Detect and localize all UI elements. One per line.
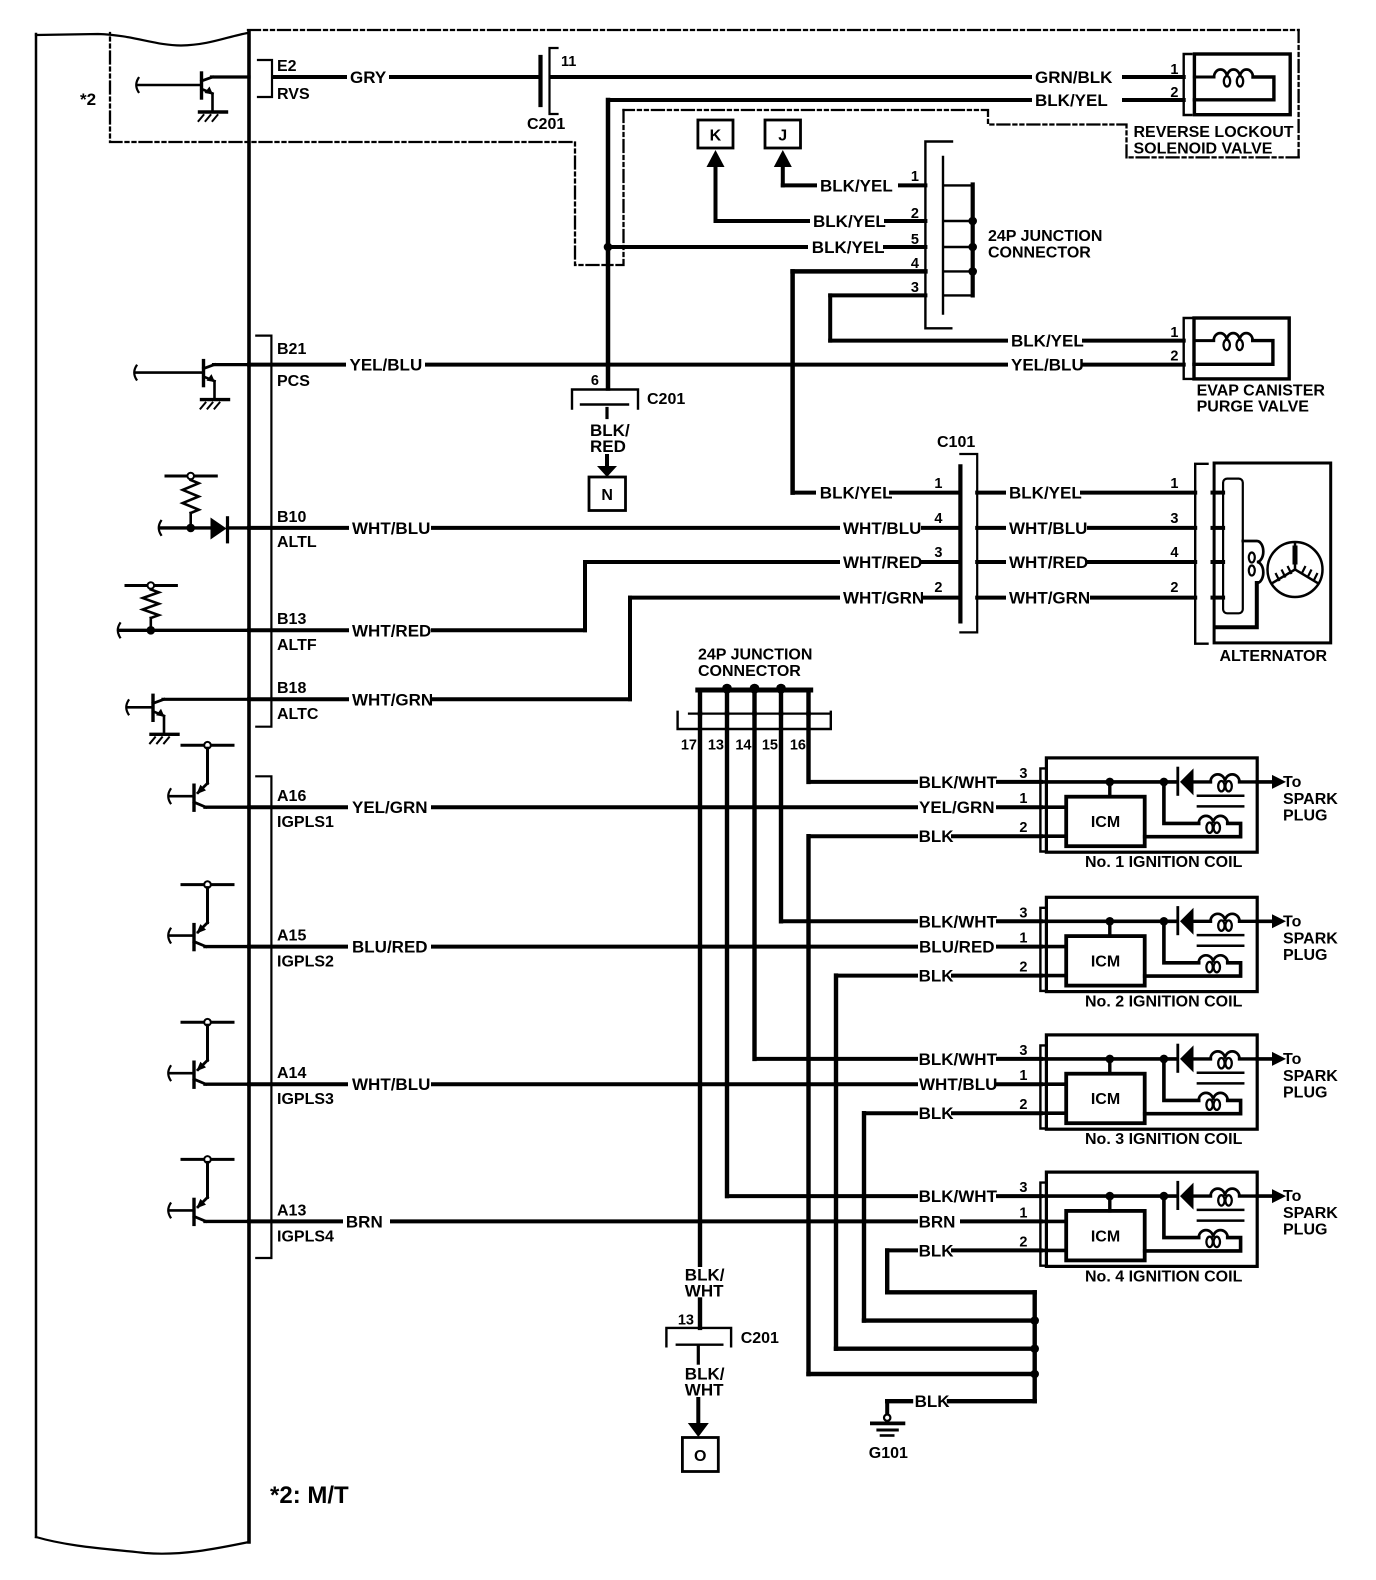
svg-text:3: 3 — [911, 280, 919, 296]
svg-text:N: N — [601, 487, 613, 504]
svg-text:RVS: RVS — [277, 86, 310, 103]
No. 4 ignition coil box — [1046, 1172, 1257, 1266]
coil 1 output arrow to spark plug — [1257, 780, 1272, 784]
svg-text:1: 1 — [1019, 1205, 1027, 1221]
24P junction connector (bottom) top bar — [698, 688, 811, 693]
M/T dash-dot boundary solenoid label box left — [624, 110, 1127, 157]
svg-text:4: 4 — [911, 256, 919, 272]
svg-text:3: 3 — [934, 545, 942, 561]
coil 4 primary winding — [1194, 1194, 1211, 1197]
wire BLK/WHT junction 17 down to C201 pin 13 — [698, 714, 702, 1265]
svg-text:ALTC: ALTC — [277, 706, 319, 723]
resistor R1 (ALTL pull-up) — [183, 480, 199, 513]
coil 1 pin 1 internal wire — [1041, 805, 1066, 809]
M/T dash-dot boundary right side — [1297, 30, 1299, 157]
arrow into node J — [774, 150, 792, 167]
coil 2 transformer core — [1198, 934, 1243, 937]
svg-text:4: 4 — [934, 511, 942, 527]
svg-text:YEL/BLU: YEL/BLU — [1011, 356, 1084, 375]
svg-text:BLK/WHT: BLK/WHT — [919, 773, 998, 792]
svg-text:GRN/BLK: GRN/BLK — [1035, 68, 1113, 87]
svg-text:A13: A13 — [277, 1202, 306, 1219]
svg-text:To: To — [1283, 774, 1302, 791]
svg-text:BLK: BLK — [919, 827, 955, 846]
svg-text:3: 3 — [1170, 511, 1178, 527]
connector C101 right bracket — [960, 454, 977, 632]
coil 4 pin 2 internal wire — [1041, 1249, 1066, 1253]
connector C201 pin 13 symbol — [666, 1328, 731, 1346]
svg-text:PCS: PCS — [277, 373, 310, 390]
svg-text:BRN: BRN — [919, 1212, 956, 1231]
svg-text:ALTL: ALTL — [277, 534, 317, 551]
svg-text:BLK: BLK — [919, 1241, 955, 1260]
svg-text:16: 16 — [790, 738, 806, 754]
page connector node N box — [589, 477, 626, 511]
svg-text:WHT/GRN: WHT/GRN — [843, 589, 924, 608]
alternator pin bracket — [1195, 464, 1207, 644]
svg-text:2: 2 — [911, 206, 919, 222]
svg-text:BLK/YEL: BLK/YEL — [820, 176, 893, 195]
wire WHT/BLU A14 to No.3 ignition coil — [249, 1082, 346, 1086]
ground bus vertical — [1032, 1292, 1036, 1401]
svg-text:No. 2 IGNITION COIL: No. 2 IGNITION COIL — [1085, 994, 1243, 1011]
page connector node K box — [698, 120, 733, 148]
arrow to page node O — [696, 1399, 700, 1424]
wire BLK/WHT junction 15 to coil 2 pin 3 — [779, 714, 783, 922]
svg-text:SPARK: SPARK — [1283, 791, 1338, 808]
svg-text:5: 5 — [911, 232, 919, 248]
svg-text:WHT/GRN: WHT/GRN — [352, 690, 433, 709]
svg-text:24P JUNCTION: 24P JUNCTION — [698, 647, 812, 664]
coil 3 junction node to secondary — [1160, 1055, 1169, 1064]
wire GRN/BLK cont. — [1124, 75, 1184, 79]
svg-text:C201: C201 — [741, 1330, 779, 1347]
coil 1 secondary winding — [1164, 782, 1199, 824]
svg-text:J: J — [778, 128, 787, 145]
svg-text:*2: M/T: *2: M/T — [270, 1482, 349, 1509]
24P junction connector (bottom) cell dividers — [698, 690, 702, 714]
EVAP canister purge valve box — [1194, 318, 1289, 379]
M/T conditional dash-dot boundary top — [248, 29, 1299, 31]
svg-text:3: 3 — [1019, 905, 1027, 921]
svg-text:WHT/RED: WHT/RED — [1009, 553, 1088, 572]
coil 3 pin 3 internal wire — [1041, 1057, 1177, 1061]
24P junction connector (top) bracket — [925, 142, 952, 329]
wire BLK coil 1 pin 2 return — [809, 834, 917, 838]
coil 3 transformer core — [1198, 1071, 1243, 1074]
svg-text:ICM: ICM — [1091, 954, 1120, 971]
coil 4 junction node to secondary — [1160, 1192, 1169, 1201]
ECM/PCM body bottom torn edge — [36, 1537, 249, 1554]
svg-text:B21: B21 — [277, 341, 306, 358]
svg-text:RED: RED — [590, 437, 626, 456]
ECM A-pin bracket — [256, 776, 271, 1258]
transistor Q4 (IGPLS1 driver) — [182, 744, 233, 747]
svg-text:SPARK: SPARK — [1283, 1068, 1338, 1085]
svg-text:WHT/BLU: WHT/BLU — [352, 519, 430, 538]
wire BLK coil 3 pin 2 return — [864, 1111, 916, 1115]
svg-text:1: 1 — [1019, 1068, 1027, 1084]
EVAP canister purge valve pin bracket — [1184, 318, 1192, 379]
No. 2 ignition coil pin bracket — [1040, 908, 1046, 991]
wire BLK to ground G101 — [949, 1399, 1035, 1403]
svg-text:K: K — [710, 128, 722, 145]
pin E2 bracket — [258, 60, 272, 97]
svg-text:ALTERNATOR: ALTERNATOR — [1220, 648, 1328, 665]
svg-text:3: 3 — [1019, 1043, 1027, 1059]
svg-text:1: 1 — [911, 169, 919, 185]
diode D2 — [1176, 908, 1179, 934]
svg-text:B13: B13 — [277, 611, 306, 628]
wire BLK coil 2 pin 2 return — [836, 974, 916, 978]
svg-text:IGPLS2: IGPLS2 — [277, 954, 334, 971]
coil 2 pin 3 internal wire — [1041, 919, 1177, 923]
pull-up bar for ALTL — [166, 475, 216, 478]
coil 3 primary winding — [1194, 1057, 1211, 1060]
svg-text:SPARK: SPARK — [1283, 930, 1338, 947]
svg-text:SPARK: SPARK — [1283, 1205, 1338, 1222]
ICM U3 box — [1066, 1074, 1145, 1124]
wire BLK/YEL main vertical — [606, 100, 611, 389]
transistor Q3 (ALTC driver) — [126, 700, 128, 714]
wire BLK/WHT junction 13 to coil 4 pin 3 — [725, 714, 729, 1197]
svg-text:WHT/RED: WHT/RED — [843, 553, 922, 572]
svg-text:4: 4 — [1170, 545, 1178, 561]
connector C201 pin 6 symbol — [572, 390, 638, 409]
No. 1 ignition coil box — [1046, 758, 1257, 852]
reverse lockout solenoid valve box — [1194, 54, 1290, 115]
wire BLK/WHT junction 14 to coil 3 pin 3 — [752, 714, 756, 1059]
svg-text:2: 2 — [1019, 1234, 1027, 1250]
coil 3 pin 2 internal wire — [1041, 1111, 1066, 1115]
svg-text:C201: C201 — [647, 391, 685, 408]
wire BLK/YEL C101 to alternator pin 1 — [977, 491, 1004, 495]
svg-text:13: 13 — [678, 1313, 694, 1329]
junction node ALTF — [147, 626, 156, 635]
svg-text:WHT/BLU: WHT/BLU — [352, 1075, 430, 1094]
wire BLK/YEL junction pin 2 to K — [716, 219, 809, 223]
svg-text:*2: *2 — [80, 90, 96, 109]
coil 3 output arrow to spark plug — [1257, 1057, 1272, 1061]
svg-text:YEL/GRN: YEL/GRN — [352, 798, 428, 817]
alternator connector bar — [1223, 479, 1243, 614]
svg-text:BLU/RED: BLU/RED — [352, 938, 428, 957]
coil 2 primary winding — [1194, 920, 1211, 923]
svg-text:2: 2 — [1019, 960, 1027, 976]
ICM U2 box — [1066, 936, 1145, 986]
svg-text:WHT: WHT — [685, 1381, 724, 1400]
svg-text:PLUG: PLUG — [1283, 807, 1327, 824]
coil 1 primary winding — [1194, 780, 1211, 783]
M/T dash-dot boundary inner left leg — [110, 33, 624, 265]
page connector node J box — [765, 120, 801, 148]
svg-text:No. 4 IGNITION COIL: No. 4 IGNITION COIL — [1085, 1268, 1243, 1285]
coil 4 pin 3 internal wire — [1041, 1194, 1177, 1198]
svg-text:BLK/WHT: BLK/WHT — [919, 1050, 998, 1069]
wire GRY E2 to C201-11 — [273, 75, 345, 79]
coil 4 secondary winding — [1164, 1196, 1199, 1238]
coil 4 transformer core — [1198, 1209, 1243, 1212]
svg-text:EVAP CANISTER: EVAP CANISTER — [1197, 383, 1326, 400]
transistor Q2 (PCS driver) — [134, 366, 136, 380]
svg-text:WHT/RED: WHT/RED — [352, 621, 431, 640]
svg-text:6: 6 — [591, 373, 599, 389]
coil 3 pin 1 internal wire — [1041, 1082, 1066, 1086]
svg-text:1: 1 — [1019, 931, 1027, 947]
junction dots on ladder — [968, 217, 977, 226]
transistor Q6 (IGPLS3 driver) — [182, 1021, 233, 1024]
reverse lockout solenoid valve pin bracket — [1184, 54, 1192, 115]
junction dots (bottom connector) — [722, 684, 732, 694]
svg-text:1: 1 — [934, 476, 942, 492]
alternator box — [1214, 463, 1331, 643]
svg-text:PLUG: PLUG — [1283, 947, 1327, 964]
svg-text:2: 2 — [1170, 85, 1178, 101]
svg-text:BLU/RED: BLU/RED — [919, 938, 995, 957]
M/T dash-dot boundary solenoid label box bottom — [1127, 156, 1299, 158]
alternator stator symbol — [1268, 542, 1323, 597]
wire GRY cont. — [391, 75, 540, 79]
coil 1 pin 2 internal wire — [1041, 834, 1066, 838]
transistor Q1 (RVS driver) — [136, 78, 138, 92]
svg-text:BLK/YEL: BLK/YEL — [820, 484, 893, 503]
ECM/PCM body left edge — [35, 34, 38, 1537]
junction node BLK/YEL branch — [604, 243, 613, 252]
24P junction connector (top) cell ladder — [971, 185, 975, 296]
svg-text:E2: E2 — [277, 58, 297, 75]
coil 1 junction node to secondary — [1160, 778, 1169, 787]
wire WHT/GRN C101 to alternator pin 2 — [977, 596, 1004, 600]
svg-text:B10: B10 — [277, 509, 306, 526]
coil 2 junction node to secondary — [1160, 917, 1169, 926]
wire WHT/BLU B10 — [249, 526, 347, 530]
svg-text:2: 2 — [1019, 820, 1027, 836]
wire YEL/BLU B21 — [249, 363, 344, 367]
svg-text:BRN: BRN — [346, 1212, 383, 1231]
wire BLU/RED A15 to No.2 ignition coil — [249, 945, 346, 949]
svg-text:BLK/YEL: BLK/YEL — [1035, 91, 1108, 110]
junction dots on ground bus — [1030, 1316, 1039, 1325]
svg-text:To: To — [1283, 1188, 1302, 1205]
wire BLK/YEL junction pin 1 to J — [783, 183, 815, 187]
No. 3 ignition coil pin bracket — [1040, 1045, 1046, 1128]
coil 1 pin 3 internal wire — [1041, 780, 1177, 784]
wire BLK/YEL junction pin 4 to C101 — [793, 269, 926, 274]
wire BLK/YEL junction pin 5 — [608, 245, 806, 249]
No. 4 ignition coil pin bracket — [1040, 1183, 1046, 1266]
svg-text:1: 1 — [1170, 62, 1178, 78]
coil 4 output arrow to spark plug — [1257, 1194, 1272, 1198]
svg-text:13: 13 — [708, 738, 724, 754]
svg-text:BLK/YEL: BLK/YEL — [1009, 484, 1082, 503]
ground G101 symbol — [884, 1415, 890, 1421]
svg-text:2: 2 — [934, 580, 942, 596]
svg-text:To: To — [1283, 1051, 1302, 1068]
coil 1 junction node to ICM — [1106, 778, 1115, 787]
EVAP valve coil winding — [1194, 339, 1214, 342]
wire ALTL row internal — [159, 521, 161, 535]
wire WHT/RED C101 to alternator pin 4 — [977, 560, 1004, 564]
svg-text:BLK/WHT: BLK/WHT — [919, 912, 998, 931]
coil 2 pin 1 internal wire — [1041, 945, 1066, 949]
wire BLK/YEL into C101 pin 1 — [793, 491, 814, 495]
wire WHT/GRN riser — [628, 598, 632, 700]
svg-text:ICM: ICM — [1091, 814, 1120, 831]
svg-text:2: 2 — [1170, 580, 1178, 596]
svg-text:GRY: GRY — [350, 68, 387, 87]
wire ALTF row internal — [118, 623, 120, 637]
connector C101 left bar — [958, 466, 962, 621]
svg-text:BLK: BLK — [919, 967, 955, 986]
svg-text:WHT/BLU: WHT/BLU — [1009, 519, 1087, 538]
svg-text:G101: G101 — [869, 1445, 908, 1462]
svg-text:ICM: ICM — [1091, 1228, 1120, 1245]
svg-text:WHT: WHT — [685, 1282, 724, 1301]
svg-text:WHT/GRN: WHT/GRN — [1009, 589, 1090, 608]
svg-text:1: 1 — [1019, 791, 1027, 807]
wire BLK/WHT junction 16 to coil 1 pin 3 — [806, 714, 810, 782]
svg-text:ICM: ICM — [1091, 1091, 1120, 1108]
svg-text:BLK/YEL: BLK/YEL — [812, 238, 885, 257]
svg-text:No. 1 IGNITION COIL: No. 1 IGNITION COIL — [1085, 854, 1243, 871]
svg-text:O: O — [694, 1448, 706, 1465]
wire WHT/RED riser — [583, 562, 587, 630]
wire BLK coil 4 pin 2 return — [887, 1248, 916, 1252]
24P junction connector (bottom) base line — [689, 712, 829, 714]
svg-text:24P JUNCTION: 24P JUNCTION — [988, 228, 1102, 245]
svg-text:A16: A16 — [277, 788, 306, 805]
svg-text:No. 3 IGNITION COIL: No. 3 IGNITION COIL — [1085, 1131, 1243, 1148]
ECM/PCM body top torn edge — [36, 33, 248, 46]
svg-text:PLUG: PLUG — [1283, 1084, 1327, 1101]
transistor Q5 (IGPLS2 driver) — [182, 883, 233, 886]
coil 3 secondary winding — [1164, 1059, 1199, 1101]
resistor R2 (ALTF pull-up) — [143, 590, 159, 619]
arrow to page node N — [605, 456, 609, 467]
svg-text:ALTF: ALTF — [277, 637, 317, 654]
svg-text:IGPLS3: IGPLS3 — [277, 1091, 334, 1108]
coil 2 secondary winding — [1164, 921, 1199, 963]
ICM U1 box — [1066, 797, 1145, 847]
24P junction connector (bottom) housing bracket — [678, 712, 831, 729]
No. 1 ignition coil pin bracket — [1040, 768, 1046, 851]
svg-text:1: 1 — [1170, 325, 1178, 341]
svg-text:IGPLS1: IGPLS1 — [277, 814, 334, 831]
diode D3 — [1176, 1045, 1179, 1071]
wire YEL/GRN A16 to No.1 ignition coil — [249, 805, 346, 809]
svg-text:YEL/GRN: YEL/GRN — [919, 798, 995, 817]
svg-text:3: 3 — [1019, 1180, 1027, 1196]
alternator rotor winding — [1243, 541, 1264, 583]
wire YEL/BLU to EVAP pin 2 — [427, 363, 1006, 367]
pull-up bar for ALTF — [126, 584, 176, 587]
svg-text:C101: C101 — [937, 434, 975, 451]
ECM B-pin bracket — [256, 336, 271, 727]
arrow into node K — [707, 150, 725, 167]
svg-text:WHT/BLU: WHT/BLU — [919, 1075, 997, 1094]
svg-text:17: 17 — [681, 738, 697, 754]
svg-text:1: 1 — [1170, 476, 1178, 492]
No. 2 ignition coil box — [1046, 897, 1257, 991]
transistor Q7 (IGPLS4 driver) — [182, 1158, 233, 1161]
wire WHT/RED B13 — [249, 628, 347, 632]
svg-text:B18: B18 — [277, 680, 306, 697]
ICM U4 box — [1066, 1211, 1145, 1261]
svg-text:To: To — [1283, 913, 1302, 930]
svg-text:YEL/BLU: YEL/BLU — [350, 356, 423, 375]
wire BLK/YEL cont. — [1124, 98, 1184, 102]
coil 1 transformer core — [1198, 794, 1243, 797]
connector C201 pin 11 symbol — [538, 57, 542, 105]
junction node ALTL — [186, 524, 195, 533]
wire WHT/GRN B18 — [249, 697, 347, 701]
svg-text:2: 2 — [1170, 349, 1178, 365]
wire BRN A13 to No.4 ignition coil — [249, 1219, 341, 1223]
coil 4 pin 1 internal wire — [1041, 1220, 1066, 1224]
svg-text:A15: A15 — [277, 928, 306, 945]
svg-text:14: 14 — [735, 738, 751, 754]
coil 2 junction node to ICM — [1106, 917, 1115, 926]
No. 3 ignition coil box — [1046, 1035, 1257, 1129]
alternator pin stubs — [1213, 491, 1224, 495]
svg-text:CONNECTOR: CONNECTOR — [988, 245, 1091, 262]
svg-text:PLUG: PLUG — [1283, 1222, 1327, 1239]
coil 2 pin 2 internal wire — [1041, 974, 1066, 978]
svg-text:15: 15 — [762, 738, 778, 754]
wire WHT/BLU C101 to alternator pin 3 — [977, 526, 1004, 530]
diode D1 — [1176, 768, 1179, 794]
diode D5 (ALTL) — [211, 518, 227, 540]
svg-text:2: 2 — [1019, 1097, 1027, 1113]
svg-text:IGPLS4: IGPLS4 — [277, 1228, 334, 1245]
coil 3 junction node to ICM — [1106, 1055, 1115, 1064]
svg-text:PURGE VALVE: PURGE VALVE — [1197, 399, 1310, 416]
diode D4 — [1176, 1182, 1179, 1208]
svg-text:C201: C201 — [527, 116, 565, 133]
wire BLK/YEL solenoid pin 2 branch — [608, 98, 1030, 102]
reverse lockout solenoid coil winding — [1194, 76, 1214, 79]
svg-text:A14: A14 — [277, 1065, 306, 1082]
wire GRN/BLK to reverse lockout solenoid pin 1 — [551, 75, 1030, 79]
svg-text:BLK/YEL: BLK/YEL — [813, 212, 886, 231]
svg-text:CONNECTOR: CONNECTOR — [698, 663, 801, 680]
svg-text:BLK/WHT: BLK/WHT — [919, 1187, 998, 1206]
coil 4 junction node to ICM — [1106, 1192, 1115, 1201]
svg-text:11: 11 — [561, 54, 576, 70]
svg-text:REVERSE LOCKOUT: REVERSE LOCKOUT — [1134, 124, 1294, 141]
svg-text:BLK: BLK — [919, 1104, 955, 1123]
svg-text:SOLENOID VALVE: SOLENOID VALVE — [1134, 141, 1273, 158]
24P junction connector (top) inner bar — [942, 157, 944, 314]
svg-text:BLK/YEL: BLK/YEL — [1011, 332, 1084, 351]
ECM/PCM body right edge — [247, 32, 251, 1542]
svg-text:WHT/BLU: WHT/BLU — [843, 519, 921, 538]
coil 2 output arrow to spark plug — [1257, 919, 1272, 923]
page connector node O box — [682, 1438, 718, 1472]
svg-text:BLK: BLK — [915, 1392, 951, 1411]
svg-text:3: 3 — [1019, 766, 1027, 782]
wire BLK/YEL junction pin 3 to EVAP valve — [830, 293, 925, 297]
